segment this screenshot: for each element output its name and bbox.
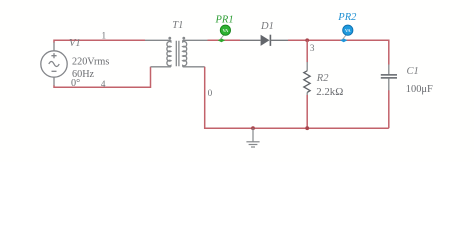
secondary top pin <box>183 39 208 41</box>
svg-text:100μF: 100μF <box>406 84 433 95</box>
junction dot at R2 bottom <box>305 126 309 130</box>
node 3 junction dot <box>305 38 309 42</box>
capacitor C1 <box>381 65 433 96</box>
svg-text:V1: V1 <box>69 38 81 49</box>
svg-text:4: 4 <box>101 79 106 89</box>
wire net 1b: transformer secondary top to diode <box>208 39 241 41</box>
primary winding <box>167 40 171 67</box>
svg-text:T1: T1 <box>172 20 183 31</box>
primary bottom pin <box>151 66 171 68</box>
svg-text:PR2: PR2 <box>337 12 357 23</box>
junction dot at ground <box>251 126 255 130</box>
svg-text:D1: D1 <box>260 21 274 32</box>
diode D1 <box>240 21 288 46</box>
ground <box>246 128 259 147</box>
secondary bottom pin <box>183 66 205 68</box>
svg-text:C1: C1 <box>407 66 419 77</box>
svg-text:VA: VA <box>223 28 229 33</box>
resistor R2 <box>304 62 344 98</box>
resistor R2 branch wire bottom <box>306 95 308 128</box>
polarity dot primary <box>168 37 171 40</box>
wire net 0: secondary bottom down and bottom rail <box>205 67 389 128</box>
transformer T1 <box>145 40 208 67</box>
svg-text:0: 0 <box>208 88 213 98</box>
svg-text:2.2kΩ: 2.2kΩ <box>316 86 343 98</box>
polarity dot secondary <box>182 37 185 40</box>
primary top pin <box>145 39 171 41</box>
core <box>176 41 179 67</box>
svg-text:1: 1 <box>102 31 107 41</box>
AC source V1 <box>41 51 67 77</box>
wire net 1: source top to transformer primary top <box>54 40 145 42</box>
probe PR2 <box>337 12 357 42</box>
resistor R2 branch wire top <box>306 40 308 62</box>
svg-text:3: 3 <box>310 43 315 53</box>
wire net 3: diode cathode across to C1, down both sides <box>288 40 389 64</box>
wire net 4: source bottom to transformer primary bottom <box>54 67 151 88</box>
svg-text:PR1: PR1 <box>215 15 234 26</box>
probe PR1 <box>215 15 234 43</box>
secondary winding <box>183 40 187 67</box>
svg-text:0°: 0° <box>71 78 80 89</box>
svg-text:VA: VA <box>345 28 351 33</box>
capacitor bottom wire <box>388 90 390 128</box>
svg-text:R2: R2 <box>316 73 329 84</box>
svg-text:220Vrms: 220Vrms <box>72 56 109 67</box>
